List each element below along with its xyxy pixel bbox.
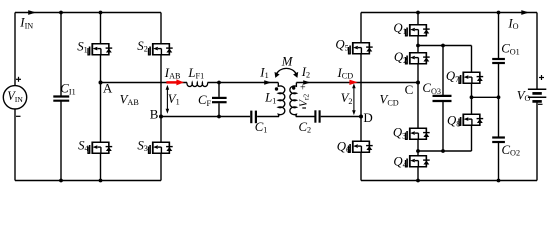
wire VO top leg <box>536 13 538 90</box>
wire rail D left <box>321 116 361 118</box>
current arrow I_AB (red) <box>166 81 177 84</box>
polarity dot secondary <box>292 86 295 89</box>
current arrow I1 <box>264 80 271 85</box>
wire bottom rail right <box>361 180 537 182</box>
capacitor CI1 <box>53 97 69 101</box>
polarity dot primary <box>275 87 278 90</box>
wire Q2-Q3 leg through node C <box>417 65 419 128</box>
wire VIN top leg <box>14 13 16 86</box>
wire Q1-Q2 leg <box>417 37 419 53</box>
current arrow I2 <box>303 80 310 85</box>
wire right leg through node B <box>160 55 162 142</box>
wire CO3 upper leg <box>442 46 444 97</box>
wire Q3-Q4 leg <box>417 140 419 155</box>
node D <box>359 115 363 119</box>
svg-text:M: M <box>281 55 294 69</box>
wire mid lower link <box>418 150 472 152</box>
wire Q5-Q6 leg through node D <box>360 55 362 141</box>
capacitor CO1 <box>492 59 505 63</box>
wire rail CD <box>296 82 418 84</box>
wire rail from node A <box>101 82 188 84</box>
wire Q4 source leg <box>417 168 419 181</box>
svg-text:C: C <box>405 82 414 97</box>
node A <box>99 81 103 85</box>
wire mid upper link <box>418 45 472 47</box>
capacitor CO3 <box>433 96 452 101</box>
svg-text:D: D <box>363 110 372 125</box>
wire Q7 drain drop <box>471 46 473 72</box>
wire Q6 source leg <box>360 153 362 181</box>
mutual inductance arc M <box>276 68 297 74</box>
winding L1 <box>278 83 285 117</box>
wire Q8 source riser <box>471 126 473 151</box>
wire Q7-Q8 leg <box>471 84 473 114</box>
wire CO1 upper leg <box>498 13 500 60</box>
wire bottom rail left <box>15 180 161 182</box>
wire Q1 drain leg <box>417 13 419 25</box>
current arrow I_IN <box>28 10 36 15</box>
wire top rail right <box>361 12 537 14</box>
inductor LF1 <box>187 83 208 87</box>
wire rail from node B <box>161 116 250 118</box>
current arrow I_O <box>521 10 529 15</box>
transistor S4 <box>88 142 112 154</box>
wire S3 source leg <box>160 154 162 181</box>
wire winding L2 to C2 <box>296 116 315 118</box>
transistor Q3 <box>406 128 430 140</box>
current arrow I_CD (red) <box>349 80 357 85</box>
wire CO column mid <box>498 63 500 138</box>
wire Q5 drain leg <box>360 13 362 43</box>
transistor Q5 <box>349 42 373 54</box>
wire S4 source leg <box>100 154 102 181</box>
node C <box>416 81 420 85</box>
svg-text:A: A <box>103 80 113 95</box>
wire top rail left <box>15 12 161 14</box>
voltage arrow V2 <box>352 83 356 115</box>
capacitor CF <box>218 83 220 117</box>
wire mid link QC column <box>472 96 499 98</box>
svg-text:B: B <box>150 107 159 122</box>
transistor Q4 <box>406 155 430 167</box>
wire CO2 lower leg <box>498 142 500 181</box>
transistor S3 <box>149 142 173 154</box>
wire S2 drain leg <box>160 13 162 45</box>
wire S1 drain leg <box>100 13 102 45</box>
wire rail A after inductor <box>208 82 279 84</box>
wire VIN bottom leg <box>14 109 16 181</box>
wire CO3 lower leg <box>442 101 444 151</box>
voltage arrow V1 <box>166 85 170 114</box>
capacitor C2 <box>315 110 319 122</box>
battery VO <box>528 89 546 101</box>
wire VO bottom leg <box>536 101 538 180</box>
capacitor CO2 <box>492 138 505 143</box>
winding L2 <box>290 83 297 117</box>
transistor Q2 <box>406 52 430 64</box>
source VIN <box>3 86 26 109</box>
wire left leg through node A <box>100 55 102 142</box>
transistor Q7 <box>459 72 483 84</box>
wire CI1 lower leg <box>60 101 62 181</box>
wire CI1 upper leg <box>60 13 62 97</box>
node B <box>159 115 163 119</box>
transistor Q1 <box>406 24 430 36</box>
wire rail B right of C1 <box>257 116 279 118</box>
transistor Q8 <box>459 114 483 126</box>
capacitor C1 <box>251 111 256 124</box>
transistor Q6 <box>349 141 373 153</box>
transistor S2 <box>149 43 173 55</box>
transistor S1 <box>88 43 112 55</box>
